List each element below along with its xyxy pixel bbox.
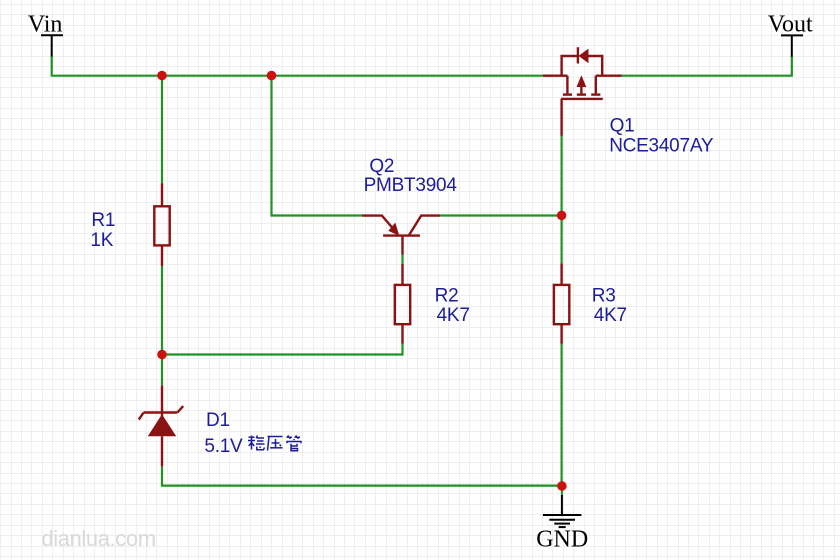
svg-text:Q1: Q1 — [610, 116, 635, 137]
svg-text:R2: R2 — [435, 286, 459, 307]
svg-text:Vin: Vin — [28, 12, 63, 38]
svg-text:dianlua.com: dianlua.com — [41, 526, 155, 551]
svg-text:R1: R1 — [91, 210, 115, 231]
svg-text:4K7: 4K7 — [437, 305, 470, 326]
svg-text:Vout: Vout — [768, 12, 813, 38]
svg-text:5.1V: 5.1V — [204, 436, 243, 457]
svg-text:Q2: Q2 — [369, 156, 394, 177]
svg-text:NCE3407AY: NCE3407AY — [609, 135, 714, 156]
svg-text:GND: GND — [536, 526, 588, 552]
svg-text:PMBT3904: PMBT3904 — [364, 175, 458, 196]
svg-text:4K7: 4K7 — [594, 305, 627, 326]
svg-text:D1: D1 — [206, 410, 230, 431]
svg-text:1K: 1K — [90, 230, 113, 251]
svg-text:R3: R3 — [592, 286, 616, 307]
